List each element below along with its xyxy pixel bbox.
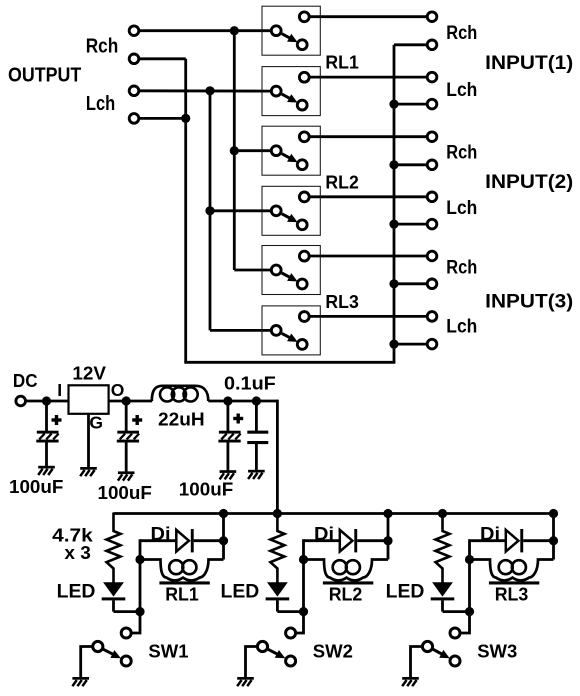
svg-text:O: O (111, 380, 125, 400)
svg-text:INPUT(2): INPUT(2) (485, 172, 573, 193)
node DC input / C1 (42, 396, 51, 405)
wire LED 2 cathode to node (277, 610, 303, 613)
wire ground bus to INPUT(1) Rch ground terminal (394, 43, 428, 46)
relay RL3a NC contact (299, 251, 309, 261)
node bus / coil3 (549, 509, 558, 518)
terminal INPUT(1) Rch ground (427, 40, 437, 50)
wire Rch bus to RL3a common (234, 269, 271, 272)
node ground bus tap 5 (389, 279, 398, 288)
node bus / coil2 (383, 509, 392, 518)
capacitor C1 100uF plates (36, 431, 58, 443)
diode Di1 flyback (140, 529, 224, 552)
svg-text:I: I (57, 380, 62, 400)
diode Di2 flyback (304, 529, 389, 552)
relay coil RL1 underline (159, 581, 209, 584)
switch SW3 lever arrow (433, 649, 442, 654)
relay RL3b NC contact (299, 312, 309, 322)
node ground bus tap 3 (389, 160, 398, 169)
relay RL2 contact b box (262, 186, 320, 235)
LED D3 (431, 582, 455, 611)
svg-text:100uF: 100uF (9, 477, 63, 497)
wire output Lch signal to RL1b common (139, 89, 272, 92)
svg-text:Rch: Rch (446, 143, 477, 164)
switch SW1 top terminal (121, 628, 131, 638)
node diode1 cathode / coil (219, 536, 228, 545)
node ground / output Lch ground (181, 114, 190, 123)
svg-text:G: G (89, 413, 103, 433)
relay coil RL3 (470, 560, 554, 581)
wire output Lch ground stub (139, 117, 186, 120)
switch SW1 closed terminal (121, 656, 131, 666)
switch SW3 pivot (422, 641, 432, 651)
node Rch bus / RL2a tap (230, 146, 239, 155)
wire Lch signal bus vertical (209, 91, 212, 331)
switch SW2 top terminal (286, 628, 296, 638)
wire 12V switch bus (114, 512, 554, 515)
svg-text:RL2: RL2 (329, 584, 363, 605)
switch SW1 lever arrow (103, 649, 113, 654)
svg-text:Lch: Lch (446, 198, 477, 219)
svg-text:Di: Di (151, 523, 171, 544)
wire ground bus to INPUT(3) Rch ground terminal (394, 282, 428, 285)
relay coil RL2 underline (323, 581, 373, 584)
switch SW2 pivot (257, 641, 267, 651)
relay RL3a common contact (271, 265, 281, 275)
wire output Rch signal to RL1a common (139, 29, 272, 32)
wire ground bus to INPUT(2) Lch ground terminal (394, 223, 428, 226)
wire node to SW3 terminal (460, 612, 470, 633)
terminal INPUT(1) Lch signal (427, 72, 437, 82)
svg-text:RL3: RL3 (495, 584, 529, 605)
node bus / R2 (273, 509, 282, 518)
svg-text:Di: Di (314, 523, 334, 544)
node ground bus tap 6 (389, 340, 398, 349)
switch SW3 top terminal (450, 628, 460, 638)
svg-text:12V: 12V (72, 363, 106, 383)
ground C3 (220, 470, 237, 479)
terminal INPUT(1) Lch ground (427, 99, 437, 109)
inductor L1 22uH (152, 386, 209, 402)
terminal INPUT(2) Rch signal (427, 132, 437, 142)
wire RL2a contact to INPUT(2) Rch terminal (309, 135, 427, 138)
switch SW1 pivot (93, 641, 103, 651)
wire coil1 left vertical (139, 539, 142, 611)
svg-text:22uH: 22uH (158, 410, 205, 430)
svg-text:SW1: SW1 (148, 641, 188, 662)
relay RL2a moving contact arrow (282, 154, 290, 158)
relay RL3b moving contact arrow (282, 333, 290, 337)
wire Rch signal bus vertical (233, 31, 236, 270)
resistor R2 4.7k (270, 513, 284, 583)
svg-text:Rch: Rch (446, 23, 477, 44)
terminal INPUT(3) Rch signal (427, 251, 437, 261)
wire RL3b contact to INPUT(3) Lch terminal (309, 315, 427, 318)
svg-text:DC: DC (13, 371, 38, 391)
relay RL2a NC contact (299, 132, 309, 142)
node regulator output / C2 (122, 396, 131, 405)
relay RL3b common contact (271, 326, 281, 336)
wire LED 3 cathode to node (443, 610, 470, 613)
relay RL3a NO contact (297, 279, 307, 289)
capacitor C1 100uF lead (45, 401, 48, 432)
LED D2 (266, 582, 290, 611)
wire coil3 right vertical to bus (552, 514, 555, 560)
wire coil2 left vertical (302, 539, 305, 611)
ground regulator (80, 467, 97, 476)
wire RL1a contact to INPUT(1) Rch terminal (309, 15, 427, 18)
wire LED 1 cathode to node (114, 610, 141, 613)
svg-text:INPUT(3): INPUT(3) (485, 291, 573, 312)
switch SW3 closed terminal (450, 656, 460, 666)
wire ground right bus vertical (393, 45, 396, 363)
capacitor C3 ground lead (226, 442, 229, 471)
svg-text:Di: Di (480, 523, 500, 544)
capacitor C2 100uF lead (125, 401, 128, 432)
wire ground left vertical (184, 59, 187, 363)
svg-text:Lch: Lch (446, 80, 477, 101)
capacitor C2 plus mark (132, 415, 142, 425)
wire SW1 pivot to ground (81, 647, 94, 678)
terminal OUTPUT Rch ground (129, 54, 139, 64)
wire coil3 left vertical (468, 539, 471, 611)
relay RL1a moving contact arrow (282, 34, 290, 38)
node Lch bus / RL2b tap (205, 206, 214, 215)
wire regulator O to inductor (109, 400, 153, 403)
wire inductor to C3 C4 feed (208, 400, 277, 403)
terminal INPUT(2) Lch signal (427, 192, 437, 202)
relay RL2 contact a box (262, 126, 320, 175)
svg-text:SW2: SW2 (313, 641, 353, 662)
relay RL1 contact b box (262, 67, 320, 116)
node bus / R3 (438, 509, 447, 518)
ground SW1 (72, 677, 89, 686)
terminal INPUT(3) Lch signal (427, 312, 437, 322)
wire coil1 right vertical to bus (222, 514, 225, 560)
relay RL1a common contact (271, 26, 281, 36)
wire Lch bus to RL3b common (210, 329, 272, 332)
capacitor C2 100uF plates (117, 431, 139, 443)
wire SW3 pivot to ground (411, 647, 423, 678)
svg-text:RL1: RL1 (165, 584, 199, 605)
terminal OUTPUT Lch ground (129, 114, 139, 124)
relay RL3a moving contact arrow (282, 273, 290, 277)
relay RL3 contact a box (262, 246, 320, 295)
svg-text:SW3: SW3 (477, 641, 517, 662)
svg-text:Lch: Lch (86, 93, 115, 115)
ground C4 (248, 470, 265, 479)
resistor R3 4.7k (436, 513, 450, 583)
node LED1 / coil / switch (135, 607, 144, 616)
node coil3 left (465, 555, 474, 564)
relay RL2b common contact (271, 206, 281, 216)
relay RL1b common contact (271, 86, 281, 96)
relay RL2b NO contact (297, 220, 307, 230)
ground C1 (38, 466, 55, 475)
LED D1 (102, 582, 126, 611)
wire Lch bus to RL2b common (210, 209, 272, 212)
wire ground bottom loop (184, 361, 395, 364)
relay RL3 contact b box (262, 306, 320, 355)
capacitor C1 plus mark (52, 415, 62, 425)
terminal DC input (16, 396, 26, 406)
svg-text:OUTPUT: OUTPUT (8, 65, 81, 87)
wire regulator G to ground (87, 414, 90, 468)
svg-text:Rch: Rch (86, 35, 119, 57)
node LED2 / coil / switch (299, 607, 308, 616)
svg-text:0.1uF: 0.1uF (224, 373, 276, 393)
svg-text:LED: LED (221, 582, 260, 603)
node LED3 / coil / switch (465, 607, 474, 616)
svg-text:LED: LED (57, 582, 96, 603)
relay RL1a NC contact (299, 12, 309, 22)
relay RL2a common contact (271, 146, 281, 156)
relay coil RL3 underline (489, 581, 539, 584)
relay RL2b NC contact (299, 192, 309, 202)
wire SW2 pivot to ground (246, 647, 258, 678)
wire Rch bus to RL2a common (234, 149, 271, 152)
svg-text:RL1: RL1 (325, 52, 358, 73)
relay RL1b NC contact (299, 72, 309, 82)
relay coil RL1 (140, 560, 224, 581)
wire RL3a contact to INPUT(3) Rch terminal (309, 255, 427, 258)
node C4 0.1uF tap (252, 396, 261, 405)
wire RL1b contact to INPUT(1) Lch terminal (309, 76, 427, 79)
svg-text:INPUT(1): INPUT(1) (485, 53, 573, 74)
node bus / coil1 (219, 509, 228, 518)
relay RL1b moving contact arrow (282, 94, 290, 98)
switch SW2 lever arrow (268, 649, 277, 654)
switch SW2 closed terminal (286, 656, 296, 666)
relay RL2a NO contact (297, 160, 307, 170)
node coil2 left (299, 555, 308, 564)
svg-text:100uF: 100uF (179, 479, 233, 499)
node Rch bus / output Rch (230, 26, 239, 35)
wire coil2 right vertical to bus (387, 514, 390, 560)
node Lch bus / output Lch (205, 86, 214, 95)
terminal OUTPUT Rch signal (129, 26, 139, 36)
capacitor C4 0.1uF (247, 401, 268, 470)
svg-text:100uF: 100uF (98, 483, 152, 503)
relay RL3b NO contact (297, 340, 307, 350)
terminal OUTPUT Lch signal (129, 86, 139, 96)
wire RL2b contact to INPUT(2) Lch terminal (309, 195, 427, 198)
relay RL2b moving contact arrow (282, 214, 290, 218)
svg-text:Rch: Rch (446, 258, 477, 279)
node L1 / C3 (223, 396, 232, 405)
wire 12V feed to switch bus (276, 400, 279, 514)
terminal INPUT(3) Rch ground (427, 279, 437, 289)
capacitor C3 100uF plates (218, 431, 240, 443)
wire node to SW1 terminal (131, 612, 140, 633)
terminal INPUT(2) Rch ground (427, 160, 437, 170)
wire DC input to regulator I (25, 400, 68, 403)
wire node to SW2 terminal (296, 612, 304, 633)
terminal INPUT(3) Lch ground (427, 339, 437, 349)
node ground bus tap 4 (389, 220, 398, 229)
svg-text:RL3: RL3 (325, 291, 358, 312)
terminal INPUT(1) Rch signal (427, 12, 437, 22)
node ground bus tap 2 (389, 100, 398, 109)
node diode2 cathode / coil (383, 536, 392, 545)
node diode3 cathode / coil (549, 536, 558, 545)
resistor R1 4.7k (107, 513, 121, 583)
svg-text:RL2: RL2 (325, 172, 358, 193)
wire ground bus to INPUT(1) Lch ground terminal (394, 103, 428, 106)
svg-text:LED: LED (386, 582, 425, 603)
capacitor C1 ground lead (45, 442, 48, 467)
terminal INPUT(2) Lch ground (427, 219, 437, 229)
ground SW2 (237, 677, 254, 686)
ground SW3 (402, 677, 419, 686)
relay coil RL2 (304, 560, 389, 581)
ground C2 (118, 471, 135, 480)
wire ground bus to INPUT(3) Lch ground terminal (394, 343, 428, 346)
capacitor C3 100uF lead (226, 401, 229, 432)
relay RL1b NO contact (297, 100, 307, 110)
capacitor C3 plus mark (233, 414, 243, 424)
relay RL1 contact a box (262, 6, 320, 55)
node coil1 left (135, 555, 144, 564)
svg-text:x 3: x 3 (64, 543, 91, 563)
capacitor C2 ground lead (125, 442, 128, 472)
wire output Rch ground stub (139, 57, 186, 60)
wire ground bus to INPUT(2) Rch ground terminal (394, 163, 428, 166)
diode Di3 flyback (470, 529, 554, 552)
regulator U1 12V box (69, 385, 109, 414)
relay RL1a NO contact (297, 40, 307, 50)
svg-text:Lch: Lch (446, 316, 477, 337)
